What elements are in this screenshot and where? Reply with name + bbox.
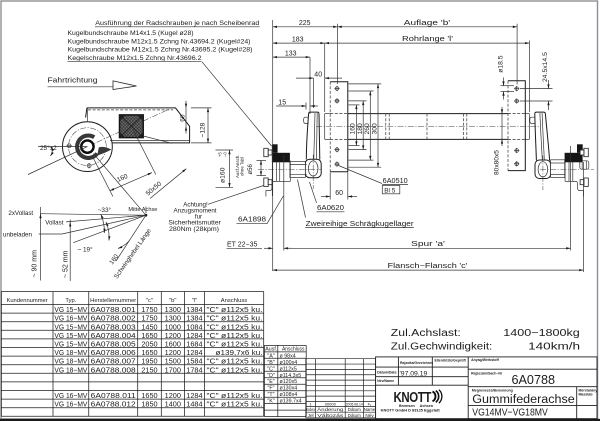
svg-text:6A0620: 6A0620 <box>317 205 344 212</box>
svg-text:Zul.Achslast:: Zul.Achslast: <box>391 328 461 339</box>
left swing arm (front view) <box>304 112 322 189</box>
dimension 133 <box>273 51 310 58</box>
svg-text:183: 183 <box>292 37 304 44</box>
svg-text:Fahrtrichtung: Fahrtrichtung <box>48 76 98 85</box>
leader 50x50 <box>143 136 186 199</box>
svg-text:~33°: ~33° <box>98 206 112 214</box>
right grease cap (black) <box>577 144 583 153</box>
svg-text:~ 90 mm: ~ 90 mm <box>32 250 39 278</box>
svg-text:~ 19°: ~ 19° <box>78 245 94 253</box>
KNOTT logo <box>381 390 442 413</box>
svg-text:ohne Tabl: ohne Tabl <box>240 157 245 176</box>
measure line ~52mm <box>62 220 70 282</box>
svg-text:2xVollast: 2xVollast <box>8 210 33 217</box>
svg-text:1784: 1784 <box>186 365 202 374</box>
left hub and drum <box>266 146 290 197</box>
extension line Rohrlange right (tube end) <box>528 41 530 113</box>
right mounting plate <box>508 81 525 171</box>
svg-text:"b": "b" <box>169 298 176 304</box>
svg-text:~ 52 mm: ~ 52 mm <box>62 250 69 278</box>
svg-text:160: 160 <box>350 123 357 135</box>
dimension 15 <box>276 99 318 109</box>
dimension 25 deg <box>28 144 87 175</box>
dimension Spur a <box>293 241 571 249</box>
measure line ~90mm <box>32 207 41 281</box>
svg-text:140km/h: 140km/h <box>528 341 580 352</box>
dimension 225 <box>273 20 338 27</box>
label Fahrtrichtung <box>48 76 137 90</box>
svg-text:Typ.: Typ. <box>65 298 76 304</box>
svg-text:VG 18−MV: VG 18−MV <box>54 365 87 374</box>
svg-text:Változás: Változás <box>317 413 344 418</box>
svg-text:180: 180 <box>357 123 364 135</box>
fan line 19 deg <box>73 215 146 243</box>
svg-text:6A1898: 6A1898 <box>238 216 266 223</box>
svg-text:Masstab: Masstab <box>579 393 593 397</box>
svg-text:"C": "C" <box>267 366 275 372</box>
svg-text:280Nm (28kpm): 280Nm (28kpm) <box>169 226 219 233</box>
svg-text:24.5x14.5: 24.5x14.5 <box>542 52 549 82</box>
svg-text:Rajzszám/Sach−Nr: Rajzszám/Sach−Nr <box>471 372 503 376</box>
dimension Flansch-Flansch c <box>273 263 584 270</box>
svg-text:15: 15 <box>278 99 286 106</box>
extension line left wheel face <box>272 20 274 271</box>
svg-text:Gummifederachse: Gummifederachse <box>472 394 575 406</box>
svg-text:VG 16−MV: VG 16−MV <box>54 400 87 409</box>
svg-text:"D": "D" <box>267 373 275 379</box>
svg-text:Vollast: Vollast <box>45 220 64 227</box>
Ausf/Anschluss mini table <box>264 345 306 416</box>
svg-text:2150: 2150 <box>141 365 157 374</box>
label 6A1898 <box>237 196 284 224</box>
dimension o160 +5/-0 <box>216 150 234 187</box>
right hub centre line <box>540 168 594 170</box>
svg-text:Kundennummer: Kundennummer <box>6 298 47 304</box>
left grease cap (black) <box>272 144 278 153</box>
extension line tube end <box>324 43 326 112</box>
extension line left flange face <box>283 155 285 251</box>
svg-text:"c": "c" <box>146 298 153 304</box>
svg-text:"A": "A" <box>267 353 274 359</box>
left wheel studs <box>264 148 272 186</box>
extension line Auflage right (plate hole centre) <box>516 24 518 85</box>
svg-text:133: 133 <box>285 51 297 58</box>
svg-text:Anschluss: Anschluss <box>221 298 248 304</box>
axle tube <box>316 114 540 140</box>
dimension ~128 <box>191 108 212 143</box>
svg-text:"B": "B" <box>267 360 274 366</box>
main variants table <box>1 292 263 417</box>
svg-text:Achsen: Achsen <box>420 404 434 408</box>
svg-text:ø100x4: ø100x4 <box>280 360 298 366</box>
revision table <box>306 359 376 418</box>
svg-text:Mitte Achse: Mitte Achse <box>128 207 158 213</box>
right stub axle <box>551 160 565 178</box>
left mounting plate 6A0510 <box>330 82 348 172</box>
extension line 133/15 <box>309 57 311 114</box>
svg-text:Anschluss: Anschluss <box>282 347 305 353</box>
dimension 60 (side view) <box>179 101 186 134</box>
svg-text:6A0788.012: 6A0788.012 <box>91 400 136 409</box>
dimension 160 (side view) <box>92 130 156 216</box>
note heading Radschrauben <box>95 20 260 27</box>
svg-text:Änderung: Änderung <box>317 406 343 412</box>
svg-text:"C" ø112x5 ku.: "C" ø112x5 ku. <box>207 400 263 409</box>
right hub and drum <box>565 161 589 197</box>
svg-text:60: 60 <box>179 114 186 122</box>
svg-text:1700: 1700 <box>165 365 181 374</box>
bottom scan edge bar <box>0 419 600 421</box>
svg-text:6A0788: 6A0788 <box>512 373 556 387</box>
extension line 40a <box>313 78 315 108</box>
label Zweireihige Schraegkugellager <box>298 180 415 228</box>
right axle nut (black) <box>565 153 583 163</box>
title block frame <box>376 357 597 419</box>
label 6A0620 with leader <box>310 182 345 212</box>
left hub centre line <box>258 168 322 170</box>
dimension Auflage b <box>338 20 518 27</box>
dimension 40 <box>296 72 342 79</box>
svg-text:1400: 1400 <box>165 400 181 409</box>
svg-text:Bremsen: Bremsen <box>399 404 416 408</box>
svg-text:1400−1800kg: 1400−1800kg <box>503 328 580 339</box>
dimension chain 160/180/260/300 <box>349 84 382 167</box>
svg-text:Dátum: Dátum <box>348 413 361 418</box>
svg-text:unbeladen: unbeladen <box>3 231 32 238</box>
leader Schwinghebel swing arc <box>116 215 146 261</box>
unbeladen reference line <box>39 233 62 235</box>
svg-text:Jel: Jel <box>308 413 314 418</box>
svg-text:−0: −0 <box>223 152 228 157</box>
svg-text:Anyag/Werkstoff: Anyag/Werkstoff <box>471 358 500 362</box>
svg-text:ET 22−35: ET 22−35 <box>227 242 258 249</box>
svg-text:Kugelbundschraube M12x1.5 Zchn: Kugelbundschraube M12x1.5 Zchng Nr.43694… <box>68 38 251 45</box>
dimension 80x80x5 <box>493 107 502 175</box>
svg-text:6A0788.008: 6A0788.008 <box>91 365 136 374</box>
svg-text:~128: ~128 <box>200 122 207 137</box>
svg-text:ø130x4: ø130x4 <box>280 386 298 392</box>
svg-text:Flansch−Flansch 'c': Flansch−Flansch 'c' <box>388 263 468 270</box>
svg-text:Dátum: Dátum <box>348 407 361 412</box>
svg-text:2005.08.14: 2005.08.14 <box>346 402 364 407</box>
svg-text:Ellenőrizte/Geprüft: Ellenőrizte/Geprüft <box>435 359 467 363</box>
left axle nut (black) <box>272 153 290 163</box>
svg-text:"F": "F" <box>268 386 275 392</box>
svg-text:Auflage 'b': Auflage 'b' <box>404 20 451 27</box>
note line Kegelschraube M12x1.5 <box>68 55 203 62</box>
extension line Auflage left (plate hole centre) <box>337 24 339 84</box>
svg-text:ø108x4: ø108x4 <box>280 392 298 398</box>
svg-text:Ausf.: Ausf. <box>265 347 277 353</box>
svg-text:ø114.3x5: ø114.3x5 <box>280 373 302 379</box>
svg-text:KNOTT GmbH D 83125 Eggstatt: KNOTT GmbH D 83125 Eggstatt <box>381 409 441 413</box>
svg-text:Zweireihige Schrägkugellager: Zweireihige Schrägkugellager <box>306 219 414 228</box>
svg-text:Név/Name: Név/Name <box>377 379 394 383</box>
svg-text:Kegelschraube M12x1.5 Zchng Nr: Kegelschraube M12x1.5 Zchng Nr.43696.2 <box>68 55 203 62</box>
svg-text:25°±2: 25°±2 <box>40 144 57 152</box>
svg-text:"K": "K" <box>267 399 274 405</box>
svg-text:Kugelbundschraube M12x1.5 Zchn: Kugelbundschraube M12x1.5 Zchng Nr.43695… <box>68 47 253 54</box>
svg-text:F₁: F₁ <box>368 402 372 407</box>
svg-text:ø56: ø56 <box>248 163 254 174</box>
svg-text:"E": "E" <box>267 379 274 385</box>
arc 19 deg <box>106 222 109 241</box>
dimension 183 <box>273 37 325 44</box>
svg-text:"T": "T" <box>268 392 275 398</box>
svg-text:ø160: ø160 <box>220 167 227 183</box>
dimension ET 22-35 <box>227 242 293 249</box>
svg-text:ø120x5: ø120x5 <box>280 379 298 385</box>
svg-text:ø 98x4: ø 98x4 <box>280 353 296 359</box>
svg-text:Megnevezés/Benennung: Megnevezés/Benennung <box>472 389 513 393</box>
rubber block 50x50 <box>120 115 144 138</box>
leader wheel bolts <box>202 62 272 146</box>
svg-text:'97.09.19: '97.09.19 <box>400 370 428 377</box>
svg-text:300: 300 <box>372 123 379 135</box>
dimension 24.5x14.5 <box>520 52 553 110</box>
svg-text:"l": "l" <box>192 298 197 304</box>
svg-text:6A0510: 6A0510 <box>383 178 408 185</box>
svg-text:1484: 1484 <box>186 400 202 409</box>
svg-text:Ausführung der Radschrauben je: Ausführung der Radschrauben je nach Sche… <box>95 20 260 27</box>
svg-text:260: 260 <box>364 123 371 135</box>
svg-text:ø139.7x4: ø139.7x4 <box>280 399 302 405</box>
dimension o56 <box>248 160 266 175</box>
svg-text:Rohrlange 'l': Rohrlange 'l' <box>402 36 453 43</box>
svg-text:60: 60 <box>335 190 343 197</box>
svg-text:Dátum/Date: Dátum/Date <box>377 371 397 375</box>
svg-text:80x80x5: 80x80x5 <box>493 150 500 175</box>
svg-text:40: 40 <box>314 72 322 79</box>
centre axis dash-dot through rubber block <box>87 109 169 146</box>
left stub axle <box>290 161 307 177</box>
dimension o18.5 <box>497 55 514 99</box>
svg-text:Spur 'a': Spur 'a' <box>411 241 445 248</box>
label 6A0510 with leader <box>339 166 409 195</box>
side view beam <box>86 108 190 143</box>
svg-text:Index: Index <box>306 407 316 412</box>
right wheel studs <box>580 148 588 186</box>
svg-text:1850: 1850 <box>141 400 157 409</box>
svg-text:"C" ø112x5 ku.: "C" ø112x5 ku. <box>207 365 263 374</box>
node Mitte Achse <box>128 207 158 217</box>
dimension Rohrlange l <box>325 36 530 43</box>
svg-text:Bl 5: Bl 5 <box>384 187 395 194</box>
svg-text:VG14MV−VG18MV: VG14MV−VG18MV <box>472 407 548 419</box>
dimension 60 plate width <box>321 173 357 200</box>
svg-text:Name: Name <box>364 407 376 412</box>
svg-text:Rajzolta/Gezeichnet: Rajzolta/Gezeichnet <box>400 361 434 365</box>
svg-text:Zul.Gechwindigkeit:: Zul.Gechwindigkeit: <box>391 341 493 352</box>
svg-text:Herstellernummer: Herstellernummer <box>90 298 136 304</box>
arc 33 deg <box>101 214 105 233</box>
fan line unbeladen <box>62 215 146 234</box>
svg-text:ø112x5: ø112x5 <box>280 366 297 372</box>
svg-text:Név: Név <box>365 413 374 418</box>
hub flange circle (side view) <box>63 109 113 172</box>
label 160 Schwinghebel Laenge <box>103 220 153 280</box>
label Ausf.Ansch ohne Tabl <box>235 155 245 178</box>
fan line 2xVollast <box>41 214 146 216</box>
extension line right wheel face (Spur) <box>570 146 572 251</box>
svg-text:00000: 00000 <box>325 402 337 407</box>
extension line right flange face <box>583 162 585 272</box>
right swing arm (front view) <box>530 112 551 190</box>
svg-text:ø18.5: ø18.5 <box>497 55 504 73</box>
svg-text:225: 225 <box>299 20 311 27</box>
fan line Vollast <box>66 215 146 222</box>
note Achtung Anzugsmoment <box>168 185 265 233</box>
svg-text:Kugelbundschraube M14x1.5 (Kug: Kugelbundschraube M14x1.5 (Kugel ø28) <box>68 30 194 37</box>
